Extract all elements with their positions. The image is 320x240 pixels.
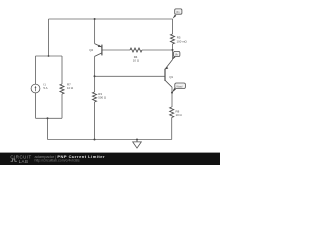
svg-text:10 Ω: 10 Ω bbox=[133, 58, 140, 62]
svg-text:500 Ω: 500 Ω bbox=[98, 96, 107, 100]
wire Q2 collector to node A bbox=[94, 56, 96, 92]
wire R7 top lead bbox=[61, 56, 63, 84]
wire Vin column bbox=[172, 19, 174, 34]
node ground junction bbox=[136, 139, 138, 141]
svg-text:Vload: Vload bbox=[176, 85, 183, 88]
resistor R8 bbox=[170, 107, 174, 118]
current source I1 bbox=[31, 84, 40, 93]
wire Q2 emitter lead bbox=[94, 19, 96, 44]
transistor Q2 bbox=[95, 44, 102, 57]
wire top rail bbox=[49, 18, 173, 20]
svg-text:10 Ω: 10 Ω bbox=[176, 113, 183, 117]
wire left drop to rail bbox=[47, 118, 49, 139]
footer title text bbox=[35, 154, 106, 163]
net flag Vload bbox=[172, 88, 176, 93]
net flag Vin bbox=[173, 15, 177, 19]
wire R8 bottom lead bbox=[171, 118, 173, 140]
wire bottom rail bbox=[48, 139, 172, 141]
svg-text:10 Ω: 10 Ω bbox=[67, 86, 74, 90]
node R3 to rail bbox=[94, 139, 96, 141]
node Vload junction bbox=[171, 92, 173, 94]
resistor R4 bbox=[130, 48, 142, 52]
wire left loop bottom bbox=[36, 117, 63, 119]
wire Q1 collector column bbox=[171, 87, 173, 107]
svg-text:http://circuitlab.com/c/4vh38s: http://circuitlab.com/c/4vh38s bbox=[35, 159, 80, 163]
svg-text:LAB: LAB bbox=[19, 159, 29, 164]
svg-text:Q2: Q2 bbox=[89, 48, 93, 52]
label R3 value bbox=[98, 92, 107, 99]
resistor R3 bbox=[93, 92, 97, 102]
resistor R5 bbox=[171, 34, 175, 44]
svg-text:5 A: 5 A bbox=[43, 86, 47, 90]
transistor Q1 bbox=[165, 60, 172, 87]
ground bbox=[133, 140, 142, 149]
wire I1 top lead bbox=[35, 56, 37, 84]
wire Q2 base to R4 bbox=[102, 49, 130, 51]
label R5 value bbox=[177, 36, 188, 44]
svg-text:Q1: Q1 bbox=[169, 75, 173, 79]
label I1 value bbox=[43, 83, 47, 90]
wire Q1 base bbox=[95, 75, 165, 77]
wire R5 to Vb node bbox=[172, 44, 174, 60]
wire R7 bottom lead bbox=[61, 94, 63, 118]
footer CircuitLab logo bbox=[10, 154, 31, 164]
label R7 value bbox=[67, 83, 74, 90]
wire I1 bottom lead bbox=[35, 93, 37, 118]
wire R3 bottom lead bbox=[94, 102, 96, 140]
node top rail / Q2 emitter bbox=[94, 18, 96, 20]
wire left vertical bbox=[48, 19, 50, 56]
svg-text:100 mΩ: 100 mΩ bbox=[177, 39, 188, 43]
node left loop top bbox=[48, 55, 50, 57]
label R4 value bbox=[133, 55, 140, 62]
label R8 value bbox=[176, 110, 183, 117]
node Vb junction bbox=[172, 49, 174, 51]
wire left loop top bbox=[36, 55, 63, 57]
footer bar bbox=[0, 153, 220, 165]
node left loop bottom bbox=[47, 117, 49, 119]
wire R4 to node Vb bbox=[142, 49, 173, 51]
resistor R7 bbox=[60, 84, 64, 94]
node A: Q1 base / Q2 collector / R3 bbox=[94, 75, 96, 77]
net flag Vb bbox=[172, 56, 175, 60]
junction node dots bbox=[47, 18, 174, 141]
